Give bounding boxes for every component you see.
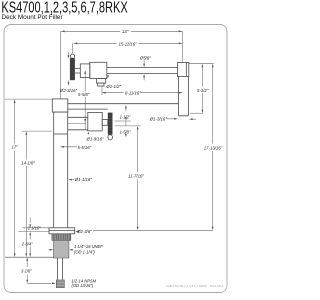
arrow 1-5/8 down [125,134,127,138]
svg-text:1-5/8": 1-5/8" [120,129,131,134]
riser upper body [54,112,68,228]
flange inner line [49,230,75,232]
svg-text:3-1/8": 3-1/8" [21,268,32,273]
dim 11-7/16 line [137,128,139,228]
arrow o1-3/16 right [174,118,178,120]
arrow 1-1/2 top up [125,105,127,109]
arrow 5-5/8 up [84,70,86,74]
svg-text:Ø1-1/16": Ø1-1/16" [74,177,93,182]
mounting nut [52,234,71,241]
arrow 5-5/8 down [84,119,86,123]
svg-text:Ø5/8": Ø5/8" [139,55,151,60]
arrow 13 left [61,30,65,32]
arrow o5/8 up [143,74,145,78]
arrow unef right tip [50,249,54,251]
flange [49,228,75,234]
arrow 2-3/4 down [29,253,31,257]
ext 5-1/2 bottom [190,112,204,114]
arrow npsm right [52,282,56,284]
svg-text:1 1/4"-18 UNEF: 1 1/4"-18 UNEF [74,244,103,249]
ext line 15-11/16 knob [72,43,74,53]
leader o5/8 lower [143,76,145,80]
middle box [88,112,102,130]
ext 8-11/16 left [101,87,103,96]
arrow 15-11/16 right [179,42,183,44]
arrow o5/8 down [143,64,145,68]
step box [97,79,106,84]
leader unef right [70,249,72,251]
knob 1 [70,54,74,58]
arrow 5-1/2 top [202,64,204,68]
lower supply pipe [58,258,63,280]
svg-text:15-11/16": 15-11/16" [119,41,138,46]
leader o5/8 upper [143,60,145,65]
right block inner line [185,63,187,77]
leader 5-5/8 [84,71,86,130]
arrow 8-11/16 left [102,92,106,94]
arrow 5-1/2 bottom [202,110,204,114]
arrow 1-1/16 down [29,224,31,228]
arrow 14-1/8 bottom [25,253,27,257]
arrow 3-1/8 down [26,280,28,284]
box A [80,64,90,78]
arrow 15-11/16 left [74,42,78,44]
centerline lower arm left [68,122,86,124]
arrow 17 bottom [14,253,16,257]
npsm thread end [56,280,64,288]
connector ext top [115,120,131,122]
box B main body [90,62,107,78]
leader unef left [49,249,51,251]
dim 1-1/16 upper [29,218,31,223]
lower arm second line [68,108,108,110]
right block [178,63,189,77]
ext 3-1/8 bottom [27,282,51,284]
svg-text:(OD 1-1/4"): (OD 1-1/4") [74,249,95,254]
riser seam [54,133,68,135]
svg-text:KaB KS4700,1,2,3,5,6,7,8RKX: KaB KS4700,1,2,3,5,6,7,8RKX 2021-05-A [166,284,223,288]
lower arm tube [68,117,88,130]
arrow 8-11/16 right [179,92,183,94]
right riser tube [179,77,189,116]
leader arrow bar bottom [68,81,70,83]
ext flange bottom [19,231,50,233]
dim 14-1/8 line [25,134,27,256]
svg-text:5-1/2": 5-1/2" [197,88,209,93]
ext flange top [23,227,50,229]
dim 15-11/16 line [74,42,183,44]
svg-text:Ø2-3/8": Ø2-3/8" [76,229,92,234]
svg-text:13": 13" [122,29,129,34]
unef thread hatch [54,242,69,256]
arrow 11-7/16 bottom [137,227,139,231]
svg-text:Ø1-1/2": Ø1-1/2" [105,84,121,89]
unef thread section [54,240,69,258]
arrow 17 top [14,99,16,103]
arrow 11-7/16 top [137,126,139,130]
arrowheads [14,30,214,284]
dim 2-3/4 column [29,235,31,255]
arrow 1-1/2 down [125,117,127,121]
dim 5-1/2 line [201,66,203,111]
connector ext bottom [115,125,141,127]
arrow unef left tip [69,249,73,251]
ext block top right [189,63,214,65]
dim 3-1/8 column [26,260,28,282]
arrow 13 right [179,30,183,32]
svg-text:Deck Mount Pot Filler: Deck Mount Pot Filler [2,14,64,21]
ext 14-1/8 top [22,130,52,132]
ext 17 top [5,98,53,100]
svg-text:Ø1-9/16": Ø1-9/16" [86,137,105,142]
arrow 2-3/4 up [29,232,31,236]
handle bar 1 [70,58,75,80]
svg-text:8-11/16": 8-11/16" [125,90,141,95]
lower left box [52,99,68,112]
svg-text:17": 17" [12,145,19,150]
handle stripes [70,61,112,134]
arrow o1-3/16 left [189,118,193,120]
arrow o1-1/16 left [68,179,72,181]
handle bar 2 [108,113,113,135]
arrow o1-9/16 [88,132,90,135]
connector lines handle to body [75,68,80,73]
dimension texts [12,29,223,288]
knob 2 [108,135,113,140]
svg-text:1 1/16": 1 1/16" [28,226,41,231]
arrow 17-13/16 bottom [212,227,214,231]
arrow 3-1/8 up [26,257,28,261]
spout tube upper [107,68,178,74]
dim 17-13/16 line [212,66,214,228]
svg-text:14-1/8": 14-1/8" [21,161,35,166]
dim 17 line [14,102,16,256]
leader o1-1/16 [70,179,74,181]
svg-text:11-7/16": 11-7/16" [128,173,144,178]
svg-text:17-13/16": 17-13/16" [204,145,223,150]
npsm thread hatch [56,282,64,287]
ext bottom right long [93,229,213,231]
dim 13in line [61,30,182,32]
arrow 14-1/8 top [25,131,27,135]
arrow knob down [68,55,70,59]
ext line left 13 [60,31,62,99]
leader o1-3/16 right [167,118,197,120]
arrow 5-5/16 left [60,146,64,148]
arrow o1-1/2 leader [107,75,109,78]
leader o2-3/8 [76,230,77,232]
connector 2 [102,120,108,126]
svg-text:5-5/8": 5-5/8" [78,92,90,97]
arrow 17-13/16 top [212,64,214,68]
leader arrow knob [68,52,70,56]
leader 5-5/16 [61,146,77,148]
svg-text:5-5/16": 5-5/16" [78,145,92,150]
dim 8-11/16 line [102,92,183,94]
svg-text:Ø2-3/16": Ø2-3/16" [59,88,78,93]
svg-text:(OD 13/16"): (OD 13/16") [72,283,94,288]
lower arm top line [68,103,179,105]
ext line right top [181,31,183,62]
stub [98,83,104,86]
svg-text:1-1/2": 1-1/2" [120,115,131,120]
dim 1-1/2 1-5/8 column [125,108,127,136]
nut knurling [54,234,70,241]
svg-text:2-3/4": 2-3/4" [21,241,33,246]
arrow o2-3/8 left [75,231,79,233]
arrow bar bottom down [68,82,70,86]
svg-text:Ø1-3/16": Ø1-3/16" [149,116,168,121]
deck line [5,256,54,258]
faucet body outlines [5,54,189,280]
